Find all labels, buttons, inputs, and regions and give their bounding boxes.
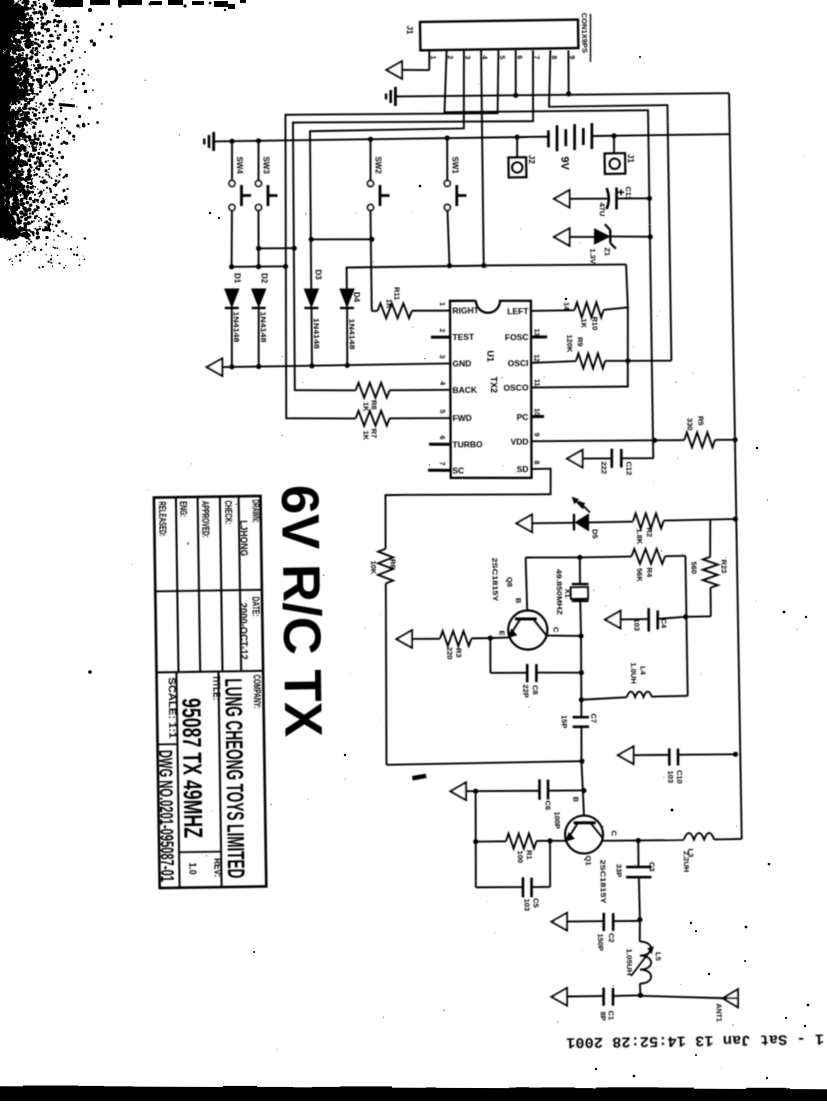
svg-text:TX2: TX2 xyxy=(489,376,499,393)
svg-text:1N4148: 1N4148 xyxy=(347,318,354,349)
svg-text:DRAWN:: DRAWN: xyxy=(250,499,261,522)
svg-text:2SC1815Y: 2SC1815Y xyxy=(599,860,607,905)
svg-text:7: 7 xyxy=(438,462,445,466)
svg-text:15P: 15P xyxy=(559,715,568,728)
svg-text:C5: C5 xyxy=(531,898,540,908)
svg-text:56K: 56K xyxy=(635,568,644,582)
svg-text:C3: C3 xyxy=(648,862,657,872)
svg-text:C2: C2 xyxy=(607,933,616,943)
svg-text:4: 4 xyxy=(438,381,445,385)
svg-text:J2: J2 xyxy=(527,155,536,165)
svg-text:13: 13 xyxy=(533,328,540,336)
svg-text:2000-OCT-12: 2000-OCT-12 xyxy=(237,603,250,660)
svg-text:C12: C12 xyxy=(625,461,634,475)
svg-text:1K: 1K xyxy=(579,318,588,328)
svg-text:1.05UH: 1.05UH xyxy=(625,949,632,976)
svg-text:560: 560 xyxy=(690,561,699,574)
svg-text:-: - xyxy=(184,542,194,545)
svg-text:C11: C11 xyxy=(624,186,633,199)
svg-text:D2: D2 xyxy=(259,273,268,284)
svg-text:REV:: REV: xyxy=(211,858,222,877)
svg-text:150P: 150P xyxy=(596,933,605,951)
svg-text:12: 12 xyxy=(533,354,540,362)
svg-text:BACK: BACK xyxy=(452,385,478,395)
svg-text:R3: R3 xyxy=(454,648,463,658)
svg-text:3: 3 xyxy=(438,355,445,359)
svg-text:TURBO: TURBO xyxy=(452,439,483,449)
svg-text:SW1: SW1 xyxy=(450,156,459,174)
svg-text:47U: 47U xyxy=(597,202,606,216)
svg-text:100: 100 xyxy=(515,851,524,864)
svg-text:6: 6 xyxy=(438,436,445,440)
svg-text:220: 220 xyxy=(445,647,454,660)
svg-text:33P: 33P xyxy=(614,864,623,877)
svg-text:J1: J1 xyxy=(405,25,414,35)
svg-text:8P: 8P xyxy=(598,1011,607,1020)
svg-text:R9: R9 xyxy=(576,337,585,347)
svg-text:2.2UH: 2.2UH xyxy=(681,851,690,872)
svg-text:SW3: SW3 xyxy=(261,156,270,174)
svg-text:9: 9 xyxy=(532,433,539,437)
svg-text:U1: U1 xyxy=(485,350,495,362)
svg-text:5: 5 xyxy=(438,409,445,413)
svg-text:C10: C10 xyxy=(675,770,684,784)
svg-text:APPROVED:: APPROVED: xyxy=(199,501,211,538)
svg-text:1K: 1K xyxy=(384,299,393,309)
svg-text:49.850MHZ: 49.850MHZ xyxy=(555,569,563,616)
svg-text:103: 103 xyxy=(666,770,675,783)
svg-text:CON1X9PS: CON1X9PS xyxy=(580,13,590,53)
svg-text:R4: R4 xyxy=(645,567,654,578)
svg-text:X1: X1 xyxy=(563,588,572,597)
svg-text:330: 330 xyxy=(685,418,694,431)
svg-text:1N4148: 1N4148 xyxy=(231,311,238,342)
svg-text:J1: J1 xyxy=(626,154,635,164)
svg-text:COMPANY:: COMPANY: xyxy=(251,674,263,708)
svg-text:PC: PC xyxy=(517,412,529,422)
svg-text:1N4148: 1N4148 xyxy=(312,318,319,349)
svg-text:1.3V: 1.3V xyxy=(588,248,597,264)
svg-text:E: E xyxy=(498,630,507,635)
svg-text:R2: R2 xyxy=(645,527,654,537)
svg-text:8: 8 xyxy=(532,460,539,464)
svg-text:10K: 10K xyxy=(369,560,378,574)
svg-text:DATE:: DATE: xyxy=(250,596,261,616)
svg-text:VDD: VDD xyxy=(510,436,528,446)
svg-text:1N4148: 1N4148 xyxy=(258,311,265,342)
svg-text:R6: R6 xyxy=(389,559,398,569)
svg-text:222: 222 xyxy=(600,461,609,474)
svg-text:TITLE:: TITLE: xyxy=(210,675,221,700)
svg-text:SCALE: 1:1: SCALE: 1:1 xyxy=(166,677,179,738)
svg-text:100P: 100P xyxy=(552,811,561,829)
svg-text:FOSC: FOSC xyxy=(505,332,529,342)
svg-text:C7: C7 xyxy=(589,713,598,723)
svg-text:GND: GND xyxy=(452,358,471,368)
svg-text:L4: L4 xyxy=(639,666,648,676)
svg-text:D3: D3 xyxy=(314,269,323,280)
svg-text:SW4: SW4 xyxy=(235,156,244,174)
svg-text:D4: D4 xyxy=(352,292,361,303)
svg-text:10: 10 xyxy=(533,408,540,416)
svg-text:RIGHT: RIGHT xyxy=(452,305,479,315)
svg-text:9V: 9V xyxy=(558,156,570,170)
svg-text:2: 2 xyxy=(438,329,445,333)
svg-text:6V R/C TX: 6V R/C TX xyxy=(270,484,333,737)
svg-text:120K: 120K xyxy=(565,334,574,353)
svg-text:Q1: Q1 xyxy=(584,855,593,865)
svg-text:1.0: 1.0 xyxy=(186,862,197,875)
svg-text:22P: 22P xyxy=(521,684,530,697)
svg-text:C: C xyxy=(551,627,560,633)
svg-text:C8: C8 xyxy=(531,685,540,695)
svg-text:95087 TX 49MHZ: 95087 TX 49MHZ xyxy=(176,698,208,839)
svg-text:FWD: FWD xyxy=(452,413,472,423)
svg-text:1.8K: 1.8K xyxy=(635,528,644,545)
svg-text:103: 103 xyxy=(632,618,641,631)
svg-text:D5: D5 xyxy=(591,529,600,539)
svg-text:103: 103 xyxy=(522,899,531,912)
svg-text:Q8: Q8 xyxy=(505,577,514,587)
svg-text:1: 1 xyxy=(438,302,445,306)
svg-text:OSCI: OSCI xyxy=(508,358,529,368)
svg-text:R10: R10 xyxy=(590,316,599,330)
svg-text:R1: R1 xyxy=(524,850,533,860)
svg-text:11: 11 xyxy=(532,379,539,387)
svg-text:C4: C4 xyxy=(659,618,668,629)
svg-text:ANT1: ANT1 xyxy=(715,1003,722,1021)
svg-text:L5: L5 xyxy=(653,952,662,961)
svg-text:LJHONG: LJHONG xyxy=(237,520,249,556)
svg-text:CHECK:: CHECK: xyxy=(222,500,233,524)
svg-text:B: B xyxy=(514,598,523,604)
svg-text:SW2: SW2 xyxy=(373,156,382,174)
svg-text:LEFT: LEFT xyxy=(507,306,529,316)
svg-text:R5: R5 xyxy=(696,416,705,426)
svg-text:C: C xyxy=(609,830,618,836)
svg-text:TEST: TEST xyxy=(452,332,475,342)
svg-text:B: B xyxy=(571,796,580,802)
svg-text:Z1: Z1 xyxy=(603,247,612,256)
svg-text:14: 14 xyxy=(562,302,569,310)
svg-text:ENG:: ENG: xyxy=(177,501,188,517)
svg-text:1K: 1K xyxy=(362,430,371,440)
svg-text:LUNG CHEONG TOYS LIMITED: LUNG CHEONG TOYS LIMITED xyxy=(219,678,249,878)
svg-text:DWG NO.0201-095087-01: DWG NO.0201-095087-01 xyxy=(155,750,177,882)
svg-text:1.0UH: 1.0UH xyxy=(629,662,638,683)
svg-text:2SC1815Y: 2SC1815Y xyxy=(491,557,499,602)
svg-text:R23: R23 xyxy=(719,559,728,573)
svg-text:C6: C6 xyxy=(544,800,553,810)
svg-text:D1: D1 xyxy=(232,273,241,284)
svg-text:SC: SC xyxy=(452,465,464,475)
svg-text:RELEASED:: RELEASED: xyxy=(156,501,168,536)
svg-text:OSCO: OSCO xyxy=(503,383,529,393)
svg-text:SD: SD xyxy=(517,464,529,474)
